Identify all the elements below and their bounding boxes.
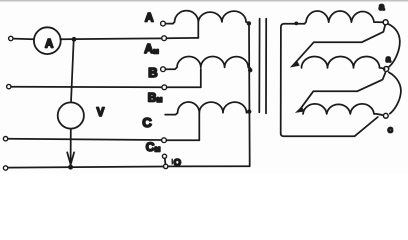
secondary frame (neutral return) (281, 24, 355, 137)
terminal (line B input) (7, 84, 11, 88)
lead c to frame (355, 117, 378, 136)
arc terminal a to terminal b (388, 24, 400, 67)
terminal a (383, 20, 388, 25)
primary winding phase A (166, 11, 249, 24)
svg-text:Bм: Bм (148, 91, 163, 105)
terminal b (384, 67, 389, 72)
node junction on line A (72, 37, 77, 42)
wire line O (8, 167, 164, 168)
terminal c (383, 113, 388, 118)
winding b start arrow (290, 60, 300, 67)
lead a to winding b start (294, 25, 386, 65)
primary neutral bus (248, 23, 251, 166)
tap wire phase C (198, 113, 200, 140)
terminal (line A input) (9, 36, 13, 40)
ammeter A1 (34, 27, 61, 54)
primary winding phase C (165, 102, 249, 115)
secondary winding b (302, 57, 385, 70)
svg-text:A: A (45, 39, 53, 51)
wire line O right part (168, 165, 249, 167)
node bus-C (247, 109, 251, 113)
terminal Am (162, 36, 167, 41)
node junction on line O (68, 165, 73, 170)
svg-text:Cм: Cм (146, 140, 161, 154)
primary winding phase B (166, 57, 251, 70)
arc terminal b to terminal c (389, 72, 401, 113)
wire junction to voltmeter (71, 40, 74, 103)
svg-text:O: O (174, 158, 181, 169)
terminal Cm (162, 138, 167, 143)
terminal O on line (164, 164, 168, 168)
scan edge line (top) (0, 0, 408, 2)
wire line C (8, 139, 162, 140)
wire ammeter to Am terminal (60, 37, 161, 40)
terminal B (161, 67, 166, 72)
terminal (line C input) (3, 137, 7, 141)
core line 2 (265, 19, 267, 114)
voltmeter V1 (58, 102, 84, 128)
svg-text:C: C (142, 115, 152, 130)
tap wire phase A (197, 22, 199, 38)
terminal O spare (162, 154, 166, 158)
wire terminal to ammeter (13, 38, 33, 41)
svg-text:a: a (379, 2, 385, 13)
winding c start arrow (295, 106, 304, 113)
svg-text:c: c (388, 125, 393, 136)
terminal (line O input) (3, 166, 7, 170)
label O tick (171, 159, 173, 164)
secondary winding c (303, 104, 383, 115)
terminal Bm (162, 85, 167, 90)
terminal A (161, 21, 166, 26)
lead b to winding c start (299, 73, 386, 111)
node winding-a start (294, 22, 298, 26)
wire Am to tap (167, 37, 199, 39)
wire voltmeter to neutral line (arrow) (70, 129, 72, 166)
wire Bm to tap (167, 86, 201, 88)
svg-text:V: V (97, 107, 105, 119)
wire spare terminal stub (164, 159, 167, 165)
wire line B (11, 86, 162, 89)
secondary winding a (305, 11, 384, 24)
core line 1 (258, 19, 260, 113)
svg-text:a: a (386, 54, 392, 64)
svg-text:A: A (145, 11, 154, 25)
svg-text:Aм: Aм (144, 42, 159, 56)
node bus-A (247, 21, 251, 25)
wire Cm to tap (166, 139, 199, 141)
svg-text:B: B (148, 65, 157, 80)
node bus-B (248, 68, 252, 72)
tap wire phase B (200, 69, 202, 87)
